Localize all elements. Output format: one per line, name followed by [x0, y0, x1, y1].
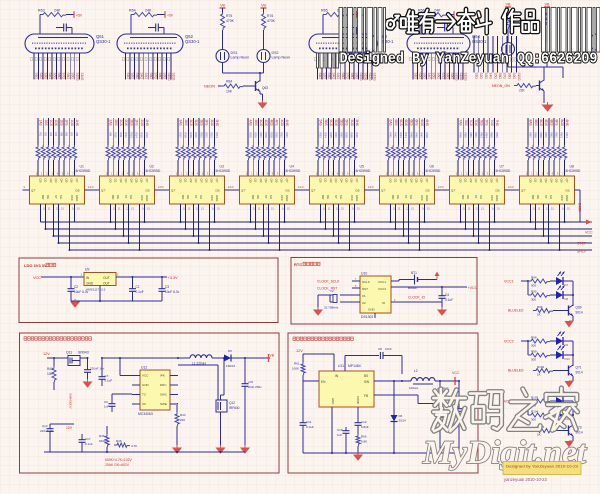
svg-text:8ES: 8ES — [549, 120, 553, 127]
svg-text:S1G: S1G — [475, 73, 479, 80]
svg-text:600K+4.7K=102V: 600K+4.7K=102V — [105, 458, 133, 462]
IC U3 74HC595D — [170, 165, 231, 211]
svg-text:9014: 9014 — [576, 371, 583, 375]
svg-text:R13: R13 — [129, 133, 133, 139]
svg-text:VCC: VCC — [560, 195, 564, 201]
svg-text:MC34063: MC34063 — [138, 412, 153, 416]
wire daisy chain U5 Q7' to U6 DS — [365, 185, 380, 190]
svg-text:S10G: S10G — [517, 73, 521, 82]
svg-text:2AS: 2AS — [109, 120, 113, 127]
svg-text:OE: OE — [46, 195, 50, 199]
svg-text:S12G: S12G — [464, 73, 468, 82]
svg-text:yanzeyuan 2010-10-23: yanzeyuan 2010-10-23 — [504, 477, 548, 482]
svg-text:Q3: Q3 — [124, 179, 128, 183]
svg-text:ST: ST — [334, 195, 338, 199]
ground for right neon driver — [543, 102, 553, 111]
svg-text:3BS: 3BS — [184, 120, 188, 127]
svg-text:S11G: S11G — [364, 73, 368, 81]
svg-text:U3: U3 — [220, 165, 224, 169]
neon lamp DS1 — [216, 50, 249, 63]
svg-text:GND: GND — [368, 308, 376, 312]
svg-text:SH: SH — [269, 195, 273, 199]
bus wire 2 — [46, 228, 593, 230]
svg-text:S10G: S10G — [359, 73, 363, 82]
svg-text:U6: U6 — [430, 165, 434, 169]
capacitor C11 0.1uF — [300, 420, 314, 453]
resistor R85 22K on NEON_ON net — [492, 84, 540, 93]
svg-text:R41: R41 — [47, 367, 53, 371]
capacitor C8 bootstrap 10nF — [345, 347, 402, 374]
svg-text:S4G: S4G — [489, 73, 493, 80]
svg-text:DS: DS — [496, 189, 500, 193]
svg-text:Q71: Q71 — [576, 366, 582, 370]
capacitors C14 C17 input filter — [40, 424, 93, 452]
wire DS1302 gnd — [374, 313, 376, 318]
svg-text:R47: R47 — [420, 133, 424, 139]
svg-text:OE: OE — [326, 195, 330, 199]
svg-text:D5: D5 — [228, 349, 232, 353]
svg-text:R62: R62 — [555, 133, 559, 139]
svg-text:14 D: 14 D — [228, 185, 234, 189]
svg-text:220uF 16+: 220uF 16+ — [40, 429, 55, 433]
svg-text:GND: GND — [215, 195, 219, 201]
svg-text:MR: MR — [181, 195, 185, 199]
LED D7 blue — [556, 272, 569, 288]
svg-text:R11: R11 — [119, 133, 123, 138]
svg-text:U9: U9 — [85, 268, 89, 272]
ground R44 — [173, 445, 181, 453]
svg-text:S5G: S5G — [53, 73, 57, 80]
ground symbol LDO — [71, 299, 79, 307]
svg-text:+5V: +5V — [76, 14, 83, 18]
svg-text:S4G: S4G — [48, 73, 52, 80]
svg-text:COMP: COMP — [356, 396, 360, 405]
svg-text:DS: DS — [146, 189, 150, 193]
svg-text:Q4: Q4 — [269, 179, 273, 183]
svg-text:R16: R16 — [145, 133, 149, 139]
resistor bank R57-R64 above U8 — [526, 118, 569, 176]
vacuum fluorescent display tube Q63 QS30-1 — [309, 34, 394, 81]
capacitor C7 0.1uF — [99, 357, 113, 386]
svg-text:8AS: 8AS — [529, 120, 533, 127]
svg-text:Q5: Q5 — [65, 179, 69, 183]
svg-text:6CS: 6CS — [399, 120, 403, 127]
wire from lamps DS1 DS2 to driver collector — [223, 63, 264, 81]
svg-text:R28: R28 — [264, 133, 268, 139]
svg-text:S5G: S5G — [144, 73, 148, 80]
capacitor C4 0.1uF — [439, 287, 454, 310]
resistor R100 1K base — [508, 365, 569, 377]
svg-text:4FS: 4FS — [275, 120, 279, 127]
svg-text:1BS: 1BS — [44, 120, 48, 127]
IC U5 74HC595D — [310, 165, 371, 211]
svg-text:R2: R2 — [44, 133, 48, 137]
resistor R66 6.8K comp — [346, 432, 367, 453]
svg-text:R56: R56 — [495, 133, 499, 139]
svg-text:7ES: 7ES — [479, 120, 483, 127]
resistor R103 300 — [528, 396, 556, 408]
svg-text:MR: MR — [41, 195, 45, 199]
ground C5 — [241, 445, 249, 453]
svg-text:R46: R46 — [116, 439, 122, 443]
section box DC-DC buck 5V supply — [288, 333, 478, 473]
svg-text:5AS: 5AS — [319, 120, 323, 127]
svg-text:CLOCK_IO: CLOCK_IO — [408, 296, 426, 300]
svg-text:S7G: S7G — [503, 73, 507, 80]
svg-text:1ES: 1ES — [59, 120, 63, 127]
svg-text:Q2: Q2 — [539, 179, 543, 183]
svg-text:BS: BS — [364, 374, 368, 378]
svg-text:GND: GND — [331, 398, 335, 404]
svg-text:R103: R103 — [531, 396, 539, 400]
svg-text:Q0: Q0 — [389, 179, 393, 183]
svg-text:Q6: Q6 — [490, 179, 494, 183]
svg-text:10uF 6.3v: 10uF 6.3v — [165, 290, 180, 294]
svg-text:STCP: STCP — [577, 242, 587, 246]
svg-text:S1G: S1G — [126, 73, 130, 80]
resistor R61 100K enable — [292, 362, 319, 421]
svg-text:14 D: 14 D — [158, 185, 164, 189]
resistor R64 24K with +5V power and filament capacitor for Q62 — [129, 9, 174, 35]
svg-text:R1: R1 — [39, 133, 43, 137]
svg-text:0.1uF: 0.1uF — [85, 442, 93, 446]
ground wire of LDO section — [71, 286, 162, 303]
svg-text:9014: 9014 — [576, 311, 583, 315]
svg-text:Q2: Q2 — [399, 179, 403, 183]
net label VCC into LDO — [33, 276, 84, 280]
svg-text:VCC2: VCC2 — [504, 340, 514, 344]
wires U6 control pins to bus — [390, 204, 426, 251]
title RTC (chinese) — [294, 262, 320, 267]
svg-text:U11: U11 — [338, 364, 344, 368]
svg-text:R66: R66 — [361, 435, 367, 439]
svg-text:MR: MR — [531, 195, 535, 199]
serial input stub of U1 — [23, 185, 30, 190]
svg-text:Q7': Q7' — [451, 189, 456, 193]
wire LED cathodes to Q73 — [564, 401, 575, 426]
svg-text:R41: R41 — [389, 133, 393, 139]
svg-text:U5: U5 — [360, 165, 364, 169]
svg-text:BT1: BT1 — [411, 271, 417, 275]
svg-text:Q2: Q2 — [119, 179, 123, 183]
svg-text:4AS: 4AS — [249, 120, 253, 127]
feedback resistors R45 R46 — [99, 426, 137, 452]
transistor Q73 9014 LED driver — [569, 425, 583, 436]
svg-text:RTC: RTC — [294, 262, 302, 267]
svg-text:Q2: Q2 — [49, 179, 53, 183]
svg-text:Q1: Q1 — [114, 179, 118, 183]
svg-text:R40: R40 — [355, 133, 359, 139]
svg-text:8FS: 8FS — [555, 120, 559, 127]
svg-text:DS: DS — [76, 189, 80, 193]
svg-text:IPK: IPK — [160, 374, 165, 378]
svg-text:U10: U10 — [361, 272, 367, 276]
svg-text:100K: 100K — [292, 367, 299, 371]
crystal Y2 32.768kHz — [324, 289, 360, 310]
svg-text:1HS: 1HS — [75, 120, 79, 127]
svg-text:S4G: S4G — [332, 73, 336, 80]
svg-text:R63: R63 — [38, 9, 45, 13]
svg-text:Q7: Q7 — [215, 179, 219, 183]
power VCC output of buck — [452, 371, 460, 385]
svg-text:S6G: S6G — [149, 73, 153, 80]
svg-text:14 D: 14 D — [438, 185, 444, 189]
svg-text:VCC: VCC — [420, 195, 424, 201]
svg-text:5ES: 5ES — [339, 120, 343, 127]
svg-text:R4: R4 — [54, 133, 58, 137]
svg-text:74HC595D: 74HC595D — [74, 169, 91, 173]
LED D10 blue — [556, 346, 570, 362]
svg-text:6GS: 6GS — [420, 120, 424, 127]
svg-text:Q2: Q2 — [329, 179, 333, 183]
LED D9 blue — [556, 332, 569, 348]
svg-text:R75: R75 — [226, 14, 232, 18]
svg-text:S9G: S9G — [450, 73, 454, 80]
title DC-DC boost (chinese) — [24, 337, 91, 340]
svg-text:0.1uF: 0.1uF — [136, 290, 144, 294]
svg-text:VB: VB — [270, 354, 275, 358]
svg-text:MR: MR — [391, 195, 395, 199]
svg-text:300: 300 — [531, 344, 536, 348]
svg-text:10K: 10K — [226, 90, 233, 94]
svg-text:R36: R36 — [334, 133, 338, 139]
svg-text:S2G: S2G — [131, 73, 135, 80]
svg-text:S7G: S7G — [441, 73, 445, 80]
svg-text:R9: R9 — [109, 133, 113, 137]
vacuum fluorescent display tube Q62 QS30-1 — [117, 34, 200, 81]
svg-text:12V: 12V — [66, 426, 73, 430]
svg-text:24K: 24K — [434, 9, 441, 13]
capacitor C2 10uF — [68, 277, 89, 301]
svg-text:2DS: 2DS — [124, 120, 128, 127]
svg-text:CLOCK_RST: CLOCK_RST — [317, 287, 337, 291]
power arrow for battery — [435, 272, 440, 280]
svg-text:4CS: 4CS — [259, 120, 263, 127]
svg-text:Q7': Q7' — [241, 189, 246, 193]
svg-text:R76: R76 — [267, 14, 273, 18]
net label CLOCK_IO — [391, 296, 442, 303]
wires U8 control pins to bus — [530, 204, 566, 251]
svg-text:C9: C9 — [104, 400, 108, 404]
IC U12 MC34063 boost controller — [132, 366, 178, 417]
svg-text:R7: R7 — [70, 133, 74, 137]
svg-text:U12: U12 — [141, 366, 147, 370]
IC U1 74HC595D — [30, 165, 91, 211]
svg-text:6FS: 6FS — [415, 120, 419, 127]
svg-text:C1: C1 — [136, 285, 140, 289]
svg-text:R45: R45 — [409, 133, 413, 139]
svg-text:3DS: 3DS — [194, 120, 198, 127]
svg-text:S9G: S9G — [162, 73, 166, 80]
svg-text:OE: OE — [116, 195, 120, 199]
svg-text:R25: R25 — [249, 133, 253, 139]
svg-text:S9G: S9G — [354, 73, 358, 80]
svg-text:ST: ST — [124, 195, 128, 199]
title LDO 3V3 3V (chinese) — [24, 263, 56, 268]
svg-text:R96: R96 — [537, 305, 543, 309]
battery BT1 button cell — [391, 271, 437, 290]
svg-text:Q11: Q11 — [66, 351, 72, 355]
svg-text:6ES: 6ES — [409, 120, 413, 127]
svg-text:L2: L2 — [414, 369, 418, 373]
svg-text:+5V: +5V — [167, 14, 174, 18]
svg-text:S12G: S12G — [368, 73, 372, 82]
svg-text:SH: SH — [129, 195, 133, 199]
svg-text:S3G: S3G — [327, 73, 331, 80]
svg-text:20AK GK=602V: 20AK GK=602V — [105, 463, 130, 467]
svg-text:R17: R17 — [179, 133, 183, 139]
svg-text:SHCP: SHCP — [577, 250, 587, 254]
svg-text:R65: R65 — [321, 9, 328, 13]
pin array of tube Q64 segment connections — [473, 36, 521, 81]
svg-text:R53: R53 — [479, 133, 483, 139]
svg-text:OE: OE — [186, 195, 190, 199]
svg-text:SH: SH — [199, 195, 203, 199]
svg-text:R15: R15 — [140, 133, 144, 139]
svg-text:VCC: VCC — [490, 195, 494, 201]
svg-text:6AS: 6AS — [389, 120, 393, 127]
svg-text:S8G: S8G — [350, 73, 354, 80]
svg-text:SH: SH — [339, 195, 343, 199]
svg-text:Q7': Q7' — [31, 189, 36, 193]
svg-text:R94: R94 — [531, 276, 537, 280]
svg-text:8GS: 8GS — [560, 120, 564, 127]
svg-text:SH: SH — [59, 195, 63, 199]
inductor L1 220uH — [190, 355, 224, 366]
svg-text:R29: R29 — [269, 133, 273, 139]
svg-text:5HS: 5HS — [355, 120, 359, 127]
svg-text:Q4: Q4 — [129, 179, 133, 183]
svg-text:R44: R44 — [180, 413, 186, 417]
svg-text:Q0: Q0 — [319, 179, 323, 183]
svg-text:10K: 10K — [47, 372, 54, 376]
svg-text:10uF 250v: 10uF 250v — [248, 385, 263, 389]
svg-text:D6: D6 — [399, 414, 403, 418]
net VCC3 for LED block 3 — [504, 400, 529, 404]
svg-text:VCC: VCC — [142, 374, 149, 378]
resistor R95 300 — [528, 281, 556, 302]
svg-text:3GS: 3GS — [210, 120, 214, 127]
svg-text:S11G: S11G — [459, 73, 463, 81]
resistor R84 10K on NEON net — [204, 80, 256, 94]
svg-text:R18: R18 — [184, 133, 188, 139]
svg-text:R60: R60 — [544, 133, 548, 139]
svg-text:Y2: Y2 — [330, 289, 334, 293]
svg-text:12V: 12V — [43, 352, 50, 356]
svg-text:Q7': Q7' — [171, 189, 176, 193]
svg-text:5CS: 5CS — [329, 120, 333, 127]
svg-text:300: 300 — [531, 284, 536, 288]
svg-text:X2: X2 — [362, 301, 366, 305]
svg-text:R30: R30 — [275, 133, 279, 139]
svg-text:32.768kHz: 32.768kHz — [324, 306, 339, 310]
svg-text:74HC595D: 74HC595D — [214, 169, 231, 173]
svg-text:Q3: Q3 — [264, 179, 268, 183]
svg-text:S5G: S5G — [493, 73, 497, 80]
svg-text:R95: R95 — [531, 290, 537, 294]
watermark barcode left — [339, 8, 386, 53]
svg-text:SH: SH — [549, 195, 553, 199]
watermark text Designed By YanZeyuan QQ:6626209 — [317, 52, 598, 69]
svg-text:VCC: VCC — [210, 195, 214, 201]
transistor Q69 9014 LED driver — [569, 305, 583, 316]
svg-text:EN: EN — [321, 380, 326, 384]
svg-text:OE: OE — [256, 195, 260, 199]
resistor R78 470K with VB power (right) — [544, 3, 550, 43]
watermark chinese shumazhijia grey outline — [433, 388, 578, 431]
transistor Q63 neon driver — [256, 81, 269, 104]
LED D8 blue — [556, 286, 569, 302]
wire daisy chain U3 Q7' to U4 DS — [225, 185, 240, 190]
svg-text:14 D: 14 D — [508, 185, 514, 189]
svg-text:Q4: Q4 — [409, 179, 413, 183]
svg-text:R59: R59 — [539, 133, 543, 139]
svg-text:7FS: 7FS — [485, 120, 489, 127]
svg-text:R55: R55 — [490, 133, 494, 139]
svg-text:R84: R84 — [226, 80, 232, 84]
svg-text:R20: R20 — [194, 133, 198, 139]
wires U7 control pins to bus — [460, 204, 496, 251]
svg-text:Q7: Q7 — [565, 179, 569, 183]
svg-text:+3.3V: +3.3V — [168, 276, 178, 280]
svg-text:MP1484: MP1484 — [348, 364, 361, 368]
svg-text:Q1: Q1 — [44, 179, 48, 183]
svg-text:14 D: 14 D — [88, 185, 94, 189]
bus wire 4 — [59, 242, 593, 244]
svg-text:Q4: Q4 — [549, 179, 553, 183]
svg-text:U7: U7 — [500, 165, 504, 169]
svg-text:D10: D10 — [565, 357, 571, 361]
svg-text:S5G: S5G — [432, 73, 436, 80]
svg-text:10nF: 10nF — [385, 347, 392, 351]
svg-text:R51: R51 — [469, 133, 473, 139]
svg-text:Q6: Q6 — [280, 179, 284, 183]
svg-text:VCC: VCC — [280, 195, 284, 201]
svg-text:R42: R42 — [394, 133, 398, 139]
svg-text:S2G: S2G — [418, 73, 422, 80]
capacitor C5 10uF 250V — [242, 358, 263, 448]
svg-text:SWE: SWE — [160, 402, 167, 406]
svg-text:R14: R14 — [135, 133, 139, 139]
capacitor C3 10uF — [159, 277, 180, 301]
svg-text:1AS: 1AS — [39, 120, 43, 127]
svg-text:NEON_ON: NEON_ON — [492, 84, 510, 88]
svg-text:Q6: Q6 — [140, 179, 144, 183]
svg-text:R37: R37 — [339, 133, 343, 139]
wire 3.3V output — [116, 276, 178, 280]
svg-text:S1G: S1G — [318, 73, 322, 80]
svg-text:Q4: Q4 — [59, 179, 63, 183]
svg-text:Q3: Q3 — [194, 179, 198, 183]
svg-text:Q1: Q1 — [184, 179, 188, 183]
svg-text:Q0: Q0 — [179, 179, 183, 183]
wires U2 control pins to bus — [110, 204, 146, 251]
svg-text:MR: MR — [251, 195, 255, 199]
svg-text:S2G: S2G — [39, 73, 43, 80]
svg-text:U1: U1 — [80, 165, 84, 169]
svg-text:Q7: Q7 — [285, 179, 289, 183]
svg-text:R23: R23 — [210, 133, 214, 139]
svg-text:6HS: 6HS — [425, 120, 429, 127]
ground under C4 — [438, 307, 446, 315]
signature yanzeyuan 2010-10-23 — [504, 477, 548, 482]
svg-text:R61: R61 — [294, 362, 300, 366]
svg-text:1K: 1K — [537, 373, 541, 377]
wire daisy chain U1 Q7' to U2 DS — [85, 185, 100, 190]
IC U11 MP1484 buck converter — [319, 364, 374, 407]
vacuum fluorescent display tube Q64 QS30-1 — [407, 34, 487, 81]
svg-text:R21: R21 — [199, 133, 203, 139]
